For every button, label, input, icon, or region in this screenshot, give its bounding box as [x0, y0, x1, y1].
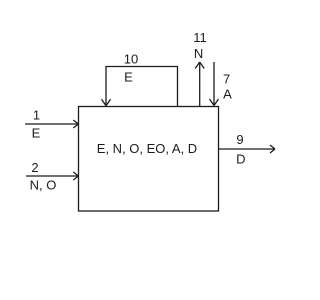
svg-text:E: E [32, 126, 41, 141]
svg-text:E: E [124, 70, 133, 85]
svg-text:2: 2 [31, 160, 38, 175]
svg-text:9: 9 [236, 132, 243, 147]
svg-text:N: N [194, 46, 203, 61]
svg-text:7: 7 [223, 72, 230, 87]
svg-text:1: 1 [33, 108, 40, 123]
svg-text:N, O: N, O [30, 178, 57, 193]
svg-text:10: 10 [124, 52, 138, 67]
svg-text:A: A [223, 87, 232, 102]
svg-text:D: D [236, 152, 245, 167]
svg-text:E, N, O, EO, A, D: E, N, O, EO, A, D [97, 141, 197, 156]
svg-text:11: 11 [193, 30, 207, 45]
